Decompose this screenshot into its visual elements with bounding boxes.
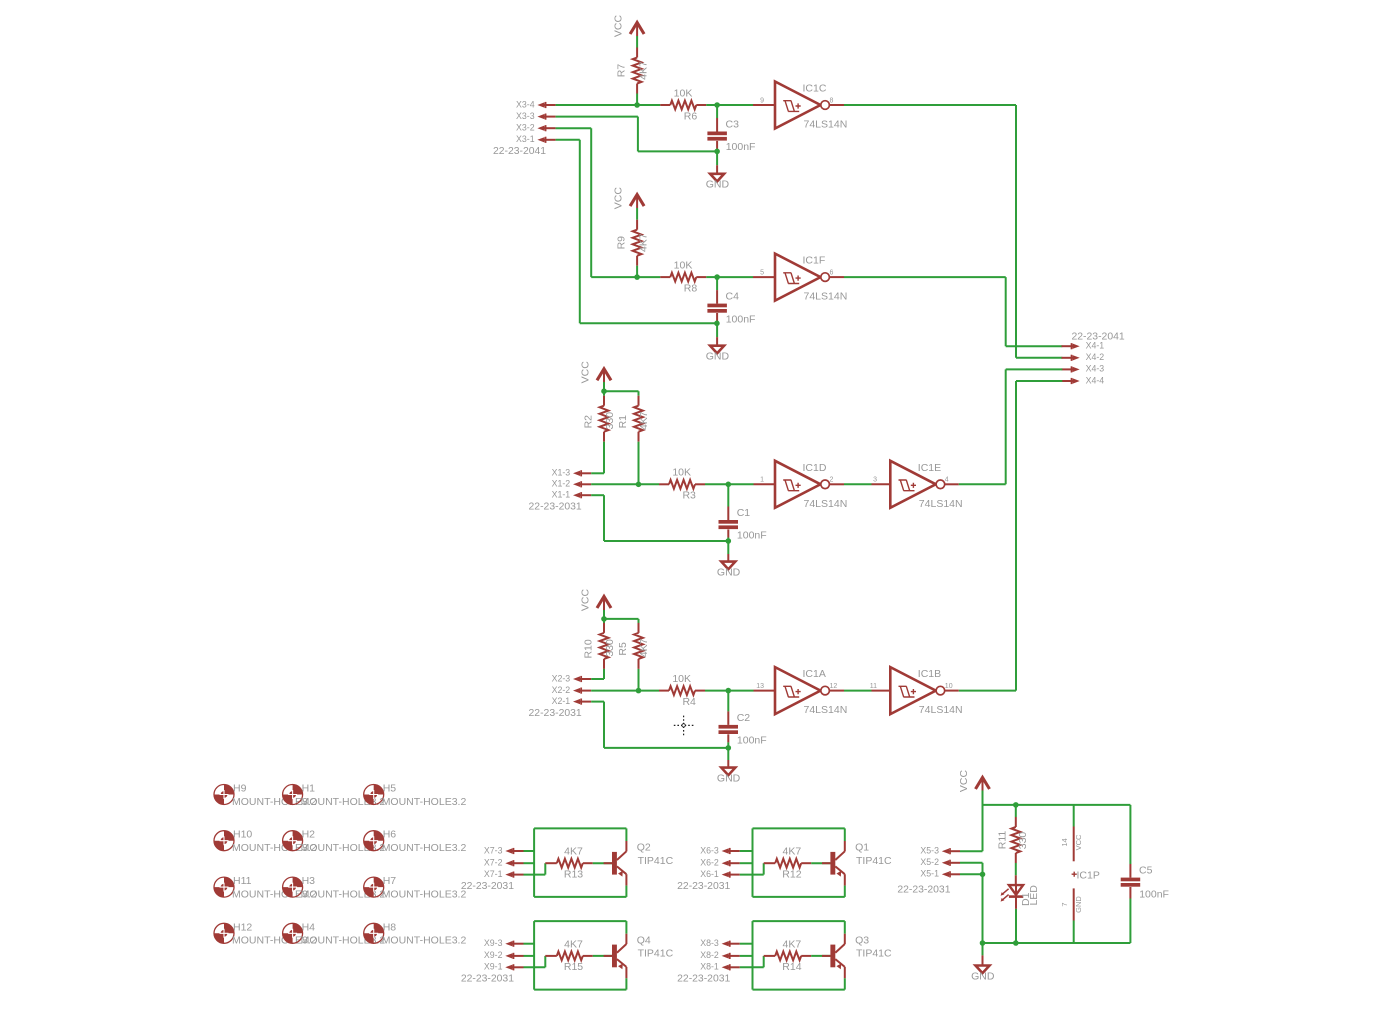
svg-text:C1: C1 bbox=[737, 507, 751, 519]
svg-text:VCC: VCC bbox=[1074, 834, 1083, 850]
svg-text:4K7: 4K7 bbox=[637, 61, 649, 80]
svg-text:GND: GND bbox=[717, 773, 741, 785]
svg-text:2: 2 bbox=[830, 477, 834, 484]
svg-text:H3: H3 bbox=[302, 875, 316, 887]
svg-text:4K7: 4K7 bbox=[564, 846, 583, 858]
svg-text:22-23-2041: 22-23-2041 bbox=[493, 146, 546, 157]
svg-text:11: 11 bbox=[870, 683, 877, 690]
svg-text:Q1: Q1 bbox=[855, 842, 869, 854]
svg-text:R10: R10 bbox=[583, 639, 595, 658]
svg-text:R11: R11 bbox=[997, 831, 1009, 850]
svg-text:100nF: 100nF bbox=[726, 313, 756, 325]
svg-text:R15: R15 bbox=[564, 961, 583, 973]
svg-text:H5: H5 bbox=[383, 783, 397, 795]
svg-text:X5-2: X5-2 bbox=[920, 857, 939, 867]
svg-text:74LS14N: 74LS14N bbox=[919, 498, 963, 510]
svg-text:VCC: VCC bbox=[580, 588, 592, 611]
svg-text:X9-3: X9-3 bbox=[484, 938, 503, 948]
svg-text:GND: GND bbox=[971, 970, 995, 982]
svg-text:10K: 10K bbox=[672, 467, 691, 479]
svg-text:X3-2: X3-2 bbox=[516, 123, 535, 133]
svg-text:X6-3: X6-3 bbox=[700, 845, 719, 855]
svg-text:X6-1: X6-1 bbox=[700, 869, 719, 879]
svg-text:IC1F: IC1F bbox=[803, 255, 826, 267]
svg-text:4K7: 4K7 bbox=[637, 233, 649, 252]
svg-text:74LS14N: 74LS14N bbox=[804, 291, 848, 303]
svg-text:H8: H8 bbox=[383, 921, 397, 933]
svg-text:X1-1: X1-1 bbox=[552, 490, 571, 500]
svg-text:4K7: 4K7 bbox=[783, 938, 802, 950]
svg-text:Q2: Q2 bbox=[637, 842, 651, 854]
svg-text:4: 4 bbox=[945, 477, 949, 484]
svg-text:12: 12 bbox=[830, 683, 838, 690]
svg-text:MOUNT-HOLE3.2: MOUNT-HOLE3.2 bbox=[382, 888, 467, 900]
svg-text:14: 14 bbox=[1060, 838, 1069, 846]
svg-text:22-23-2031: 22-23-2031 bbox=[677, 881, 730, 892]
svg-text:74LS14N: 74LS14N bbox=[804, 119, 848, 131]
svg-text:Q4: Q4 bbox=[637, 934, 651, 946]
svg-text:X7-3: X7-3 bbox=[484, 845, 503, 855]
svg-text:X8-3: X8-3 bbox=[700, 938, 719, 948]
svg-text:X8-1: X8-1 bbox=[700, 962, 719, 972]
svg-text:H12: H12 bbox=[233, 921, 252, 933]
svg-text:10K: 10K bbox=[674, 87, 693, 99]
svg-text:4K7: 4K7 bbox=[638, 411, 650, 430]
svg-text:1: 1 bbox=[760, 477, 764, 484]
svg-text:C2: C2 bbox=[737, 712, 751, 724]
svg-text:MOUNT-HOLE3.2: MOUNT-HOLE3.2 bbox=[382, 935, 467, 947]
svg-text:TIP41C: TIP41C bbox=[638, 855, 674, 867]
svg-text:R5: R5 bbox=[617, 642, 629, 656]
svg-text:LED: LED bbox=[1028, 885, 1040, 906]
svg-text:R13: R13 bbox=[564, 869, 583, 881]
svg-text:10K: 10K bbox=[674, 260, 693, 272]
svg-text:R6: R6 bbox=[684, 110, 698, 122]
svg-text:IC1B: IC1B bbox=[918, 668, 941, 680]
svg-text:X4-4: X4-4 bbox=[1086, 375, 1105, 385]
svg-text:X3-4: X3-4 bbox=[516, 99, 535, 109]
svg-text:X5-3: X5-3 bbox=[920, 846, 939, 856]
svg-text:H7: H7 bbox=[383, 875, 397, 887]
svg-text:IC1D: IC1D bbox=[803, 462, 827, 474]
svg-text:330: 330 bbox=[604, 639, 616, 657]
svg-text:C5: C5 bbox=[1139, 865, 1153, 877]
svg-text:C3: C3 bbox=[726, 119, 740, 131]
svg-text:8: 8 bbox=[830, 97, 834, 104]
svg-text:X8-2: X8-2 bbox=[700, 950, 719, 960]
svg-text:TIP41C: TIP41C bbox=[856, 948, 892, 960]
svg-text:22-23-2031: 22-23-2031 bbox=[529, 502, 582, 513]
svg-text:X4-3: X4-3 bbox=[1086, 364, 1105, 374]
svg-text:H4: H4 bbox=[302, 921, 316, 933]
svg-text:13: 13 bbox=[756, 683, 764, 690]
svg-text:VCC: VCC bbox=[613, 187, 625, 210]
svg-text:R14: R14 bbox=[782, 961, 801, 973]
svg-text:H9: H9 bbox=[233, 783, 247, 795]
svg-text:IC1P: IC1P bbox=[1077, 869, 1100, 881]
svg-text:GND: GND bbox=[1074, 896, 1083, 913]
svg-text:GND: GND bbox=[706, 351, 730, 363]
svg-text:100nF: 100nF bbox=[737, 735, 767, 747]
svg-text:TIP41C: TIP41C bbox=[638, 948, 674, 960]
svg-text:X5-1: X5-1 bbox=[920, 869, 939, 879]
svg-text:X9-2: X9-2 bbox=[484, 950, 503, 960]
svg-text:100nF: 100nF bbox=[737, 530, 767, 542]
svg-text:GND: GND bbox=[717, 567, 741, 579]
svg-text:5: 5 bbox=[760, 270, 764, 277]
svg-text:X6-2: X6-2 bbox=[700, 858, 719, 868]
svg-text:4K7: 4K7 bbox=[564, 938, 583, 950]
svg-text:X4-1: X4-1 bbox=[1086, 341, 1105, 351]
svg-text:X2-2: X2-2 bbox=[552, 685, 571, 695]
svg-text:6: 6 bbox=[830, 270, 834, 277]
svg-text:H10: H10 bbox=[233, 829, 252, 841]
svg-text:R12: R12 bbox=[782, 869, 801, 881]
svg-text:R8: R8 bbox=[684, 283, 698, 295]
svg-text:VCC: VCC bbox=[580, 361, 592, 384]
svg-text:X9-1: X9-1 bbox=[484, 962, 503, 972]
svg-text:4K7: 4K7 bbox=[783, 846, 802, 858]
svg-text:4K7: 4K7 bbox=[638, 638, 650, 657]
svg-text:VCC: VCC bbox=[958, 769, 970, 792]
svg-text:9: 9 bbox=[760, 97, 764, 104]
svg-text:R3: R3 bbox=[682, 490, 696, 502]
svg-text:TIP41C: TIP41C bbox=[856, 855, 892, 867]
svg-text:74LS14N: 74LS14N bbox=[804, 498, 848, 510]
svg-text:22-23-2031: 22-23-2031 bbox=[677, 974, 730, 985]
svg-text:R9: R9 bbox=[616, 236, 628, 250]
svg-text:22-23-2031: 22-23-2031 bbox=[461, 974, 514, 985]
svg-text:7: 7 bbox=[1060, 902, 1069, 906]
svg-text:MOUNT-HOLE3.2: MOUNT-HOLE3.2 bbox=[382, 842, 467, 854]
svg-text:X1-2: X1-2 bbox=[552, 479, 571, 489]
svg-text:22-23-2031: 22-23-2031 bbox=[529, 708, 582, 719]
svg-text:X1-3: X1-3 bbox=[552, 468, 571, 478]
svg-text:H1: H1 bbox=[302, 783, 316, 795]
svg-text:10: 10 bbox=[945, 683, 953, 690]
svg-text:330: 330 bbox=[1017, 832, 1029, 850]
svg-text:X4-2: X4-2 bbox=[1086, 352, 1105, 362]
svg-text:R1: R1 bbox=[617, 415, 629, 429]
svg-text:X2-1: X2-1 bbox=[552, 696, 571, 706]
svg-text:IC1A: IC1A bbox=[803, 668, 826, 680]
svg-text:X3-1: X3-1 bbox=[516, 134, 535, 144]
svg-text:GND: GND bbox=[706, 179, 730, 191]
svg-text:10K: 10K bbox=[672, 673, 691, 685]
svg-text:IC1C: IC1C bbox=[803, 83, 827, 95]
svg-text:IC1E: IC1E bbox=[918, 462, 941, 474]
svg-text:X3-3: X3-3 bbox=[516, 111, 535, 121]
svg-text:R4: R4 bbox=[682, 696, 696, 708]
svg-text:22-23-2031: 22-23-2031 bbox=[897, 885, 950, 896]
svg-text:R2: R2 bbox=[583, 415, 595, 429]
svg-text:R7: R7 bbox=[616, 64, 628, 78]
svg-text:H2: H2 bbox=[302, 829, 316, 841]
svg-text:X7-1: X7-1 bbox=[484, 869, 503, 879]
svg-text:Q3: Q3 bbox=[855, 934, 869, 946]
svg-text:22-23-2031: 22-23-2031 bbox=[461, 881, 514, 892]
svg-text:H6: H6 bbox=[383, 829, 397, 841]
svg-text:H11: H11 bbox=[233, 875, 252, 887]
svg-text:330: 330 bbox=[604, 412, 616, 430]
svg-text:74LS14N: 74LS14N bbox=[804, 704, 848, 716]
svg-text:100nF: 100nF bbox=[726, 141, 756, 153]
svg-text:3: 3 bbox=[873, 477, 877, 484]
svg-text:100nF: 100nF bbox=[1139, 888, 1169, 900]
svg-text:VCC: VCC bbox=[613, 14, 625, 37]
svg-text:X7-2: X7-2 bbox=[484, 858, 503, 868]
svg-text:74LS14N: 74LS14N bbox=[919, 704, 963, 716]
svg-text:X2-3: X2-3 bbox=[552, 673, 571, 683]
svg-text:C4: C4 bbox=[726, 291, 740, 303]
svg-text:MOUNT-HOLE3.2: MOUNT-HOLE3.2 bbox=[382, 796, 467, 808]
